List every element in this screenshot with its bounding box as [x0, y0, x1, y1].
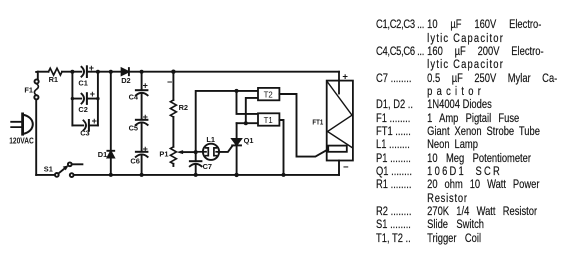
potentiometer P1 [170, 147, 195, 166]
node top rail / C-bank right [96, 70, 100, 74]
node trigger bus / T-coils [235, 89, 239, 93]
node top rail / C4 [140, 70, 144, 74]
svg-text:D1: D1 [98, 150, 107, 159]
svg-text:T1: T1 [264, 116, 273, 125]
svg-text:Q1: Q1 [244, 136, 254, 145]
svg-text:+: + [90, 89, 95, 99]
FT1 cathode lead [338, 161, 340, 175]
svg-text:+: + [143, 112, 148, 122]
diode D1 [107, 72, 114, 175]
node bottom rail / C7 [194, 173, 198, 177]
wire fuse to plug [35, 99, 37, 174]
diode D2 [122, 68, 142, 75]
capacitor C2 [72, 93, 98, 104]
FT1 trigger plate [328, 146, 347, 152]
svg-text:120VAC: 120VAC [9, 136, 34, 146]
wire T2 right to FT1 trigger [279, 94, 328, 157]
node top rail / R2 [171, 70, 175, 74]
wire L1 to Q1 gate [218, 146, 232, 152]
trigger coil T1 [258, 113, 279, 125]
wire wiper node up to trigger coils [196, 91, 258, 152]
node bottom rail / Q1 [234, 173, 238, 177]
svg-text:R2: R2 [179, 103, 188, 112]
wire top rail D2 to FT1 [142, 71, 339, 73]
svg-text:C2: C2 [78, 105, 87, 114]
svg-text:D2: D2 [121, 76, 130, 85]
svg-text:+: + [92, 116, 97, 126]
svg-text:C1: C1 [78, 78, 87, 87]
svg-text:−: − [343, 162, 349, 173]
svg-text:+: + [143, 80, 148, 90]
resistor R1 [49, 68, 63, 75]
trigger coil T2 [258, 88, 279, 100]
svg-text:F1: F1 [24, 85, 33, 94]
AC plug [11, 114, 33, 134]
svg-text:R1: R1 [49, 75, 58, 84]
svg-text:P1: P1 [159, 149, 168, 158]
svg-text:C4: C4 [129, 93, 139, 102]
wire T1 top-left pin from node [237, 91, 258, 114]
node bottom rail / C6 [140, 173, 144, 177]
node C2 branch right [96, 97, 99, 100]
SCR Q1 [232, 123, 241, 175]
capacitor C5 [136, 120, 148, 152]
node T1 lower pin junction [244, 121, 248, 125]
node top rail / C-bank left [70, 70, 74, 74]
node C2 branch left [71, 97, 74, 100]
svg-text:−: − [167, 77, 172, 87]
resistor R2 [170, 72, 176, 147]
wire T1 right to bottom rail [279, 120, 283, 175]
FT1 anode lead [338, 72, 340, 94]
wire T1 lower-left pin to Q1 anode [237, 122, 258, 124]
svg-text:+: + [342, 71, 348, 82]
wire T2 lower-left pin [246, 98, 258, 123]
junction dots [70, 70, 285, 178]
node top rail / D1 [109, 70, 113, 74]
flash tube FT1 body [327, 81, 353, 161]
svg-text:T2: T2 [264, 91, 273, 100]
svg-text:C7: C7 [203, 162, 212, 171]
neon lamp L1 [196, 144, 220, 160]
capacitor C4 [136, 72, 148, 120]
fuse F1 [34, 79, 38, 99]
node bottom rail / D1 [109, 173, 113, 177]
svg-text:C3: C3 [80, 129, 89, 138]
capacitor bank C1-C3 right vertical [97, 72, 99, 126]
svg-text:L1: L1 [206, 135, 215, 144]
svg-text:C6: C6 [130, 157, 139, 166]
switch S1 [36, 162, 82, 177]
svg-text:+: + [143, 144, 148, 154]
wire left drop to fuse [36, 72, 38, 80]
capacitor C1 [82, 66, 99, 77]
wire top rail left segment [38, 71, 49, 73]
capacitor C6 [136, 152, 148, 175]
svg-text:S1: S1 [44, 164, 53, 173]
wire bottom rail [74, 174, 339, 176]
svg-text:C5: C5 [129, 123, 138, 132]
svg-text:+: + [89, 63, 94, 73]
capacitor bank C1-C3 left vertical [71, 72, 73, 126]
wire top rail C1 to D2 [98, 71, 121, 73]
wire top rail R1 to C-bank [62, 71, 81, 73]
capacitor C7 [190, 152, 202, 175]
capacitor C3 [72, 120, 98, 131]
svg-text:FT1: FT1 [312, 118, 323, 127]
node wiper / C7 / L1 [194, 150, 198, 154]
node bottom rail / T1 return [282, 173, 286, 177]
